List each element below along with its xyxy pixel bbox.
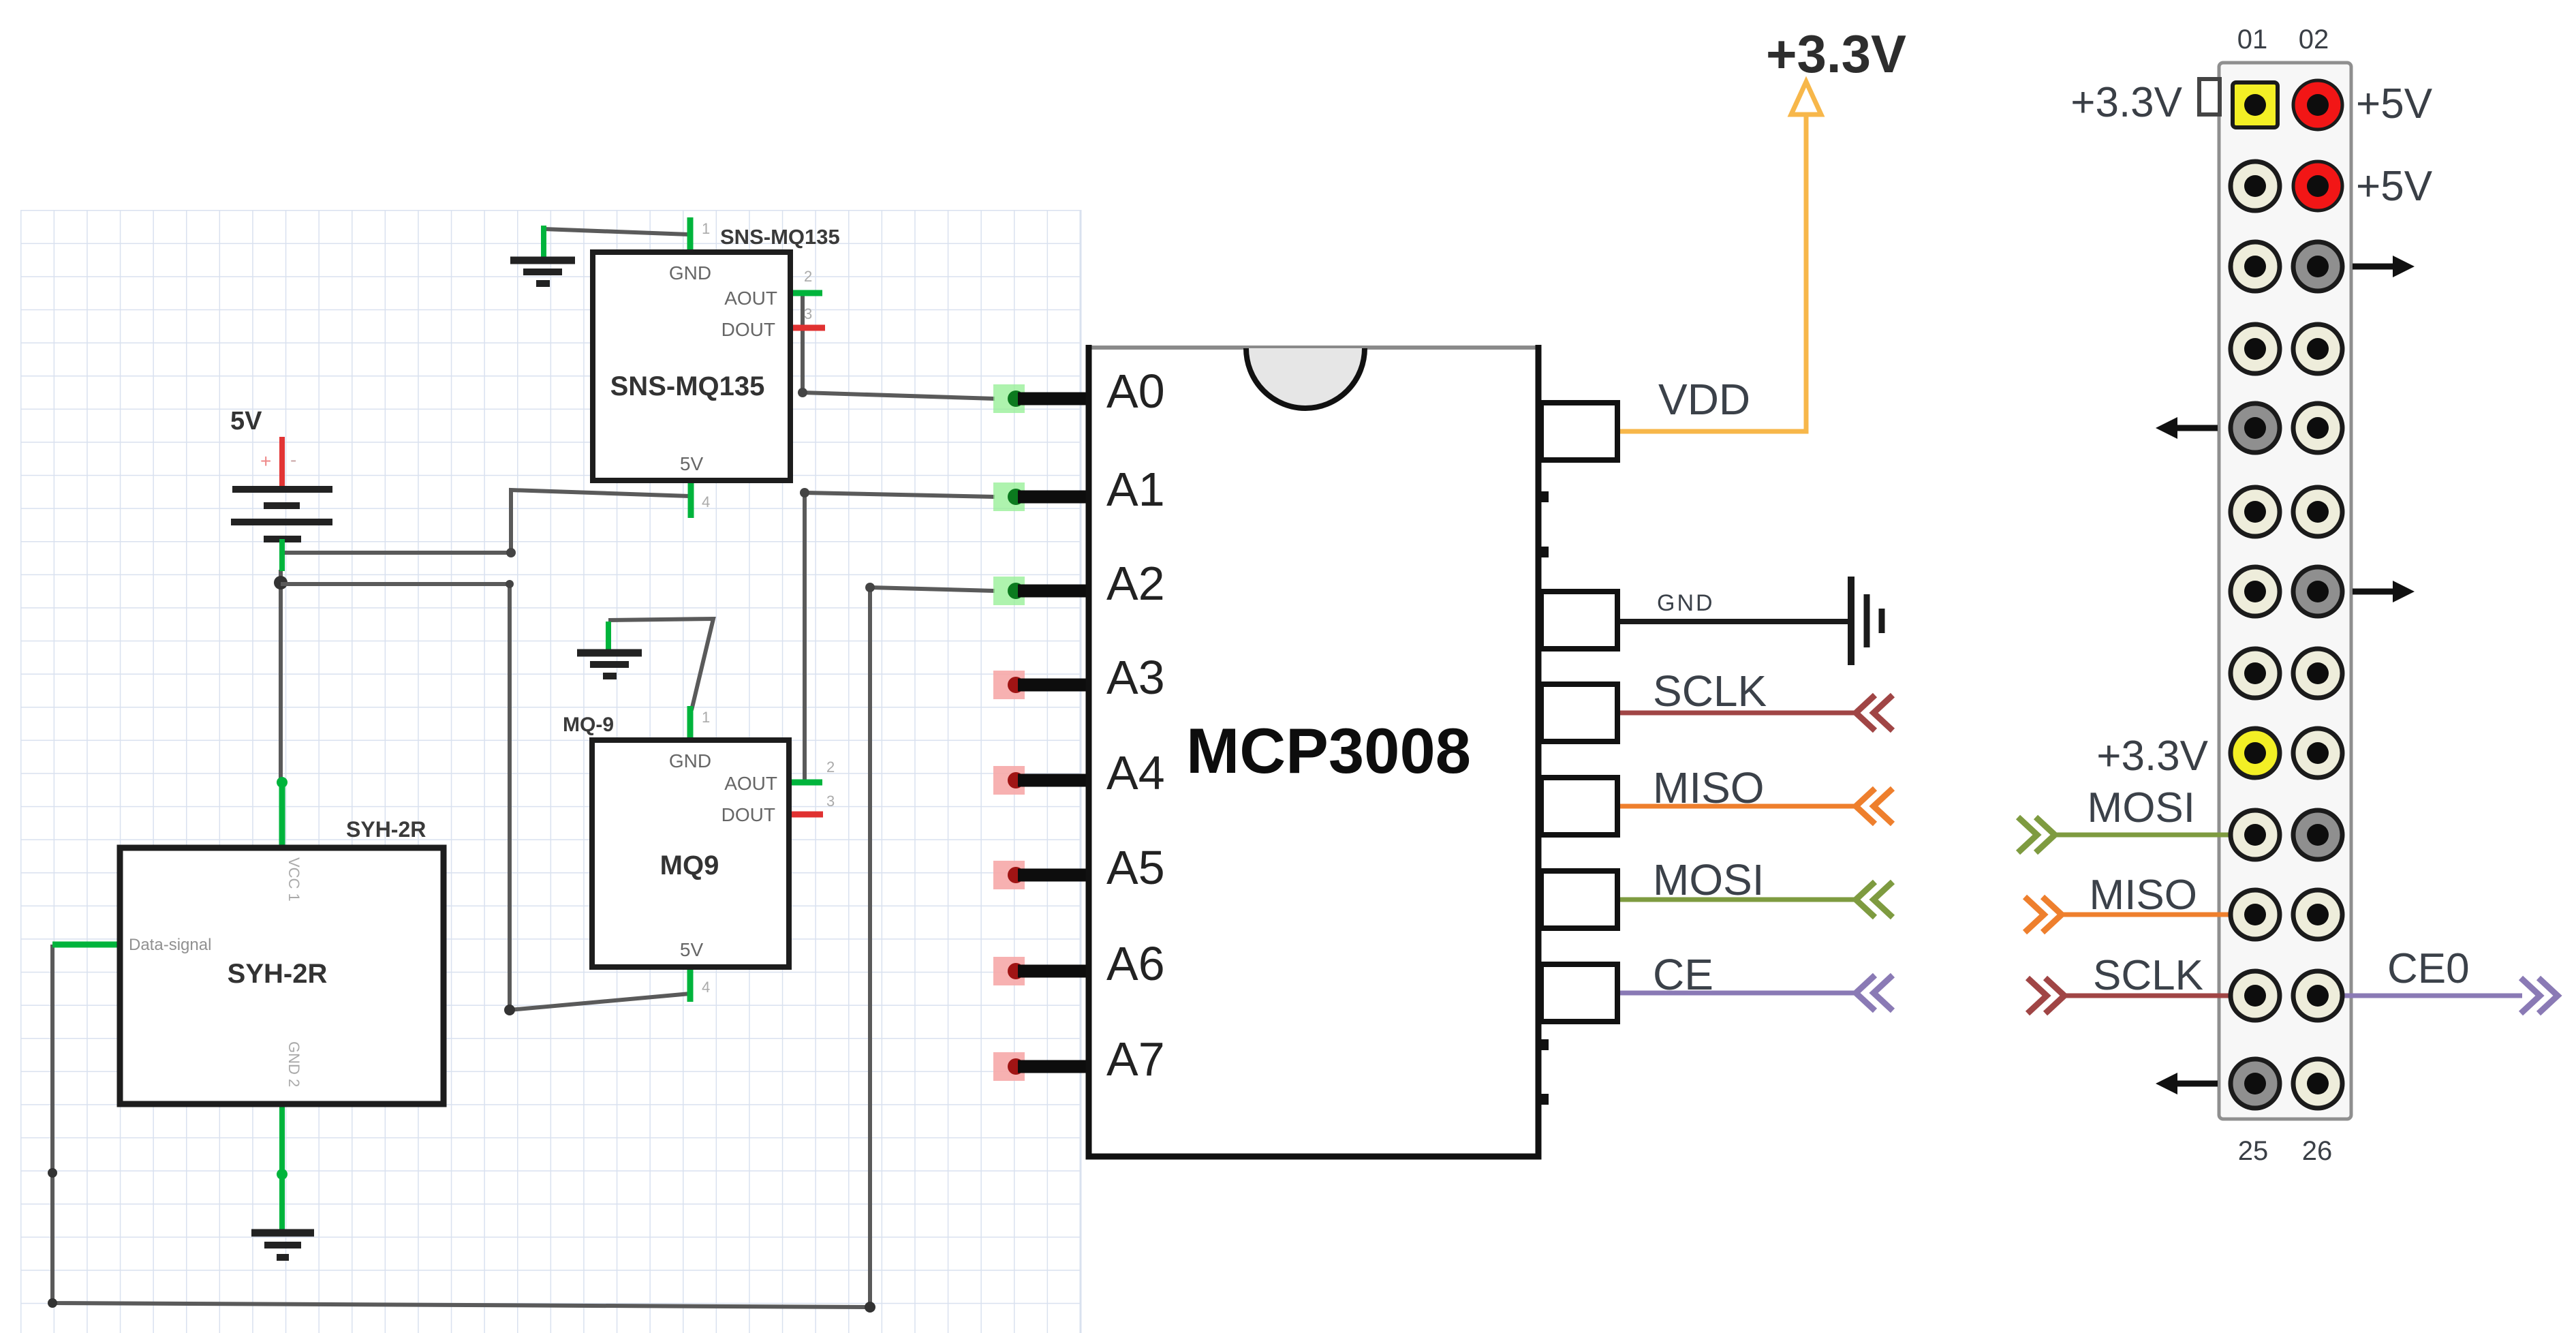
MCP3008 stub A3 [1018, 679, 1091, 692]
svg-text:+5V: +5V [2356, 80, 2433, 127]
pin 13 cream [2231, 567, 2280, 616]
svg-text:1: 1 [702, 709, 710, 726]
pin 16 cream [2293, 649, 2342, 698]
pin 17 yellow [2231, 729, 2280, 778]
ground G3 plate short [277, 1254, 289, 1261]
svg-text:MISO: MISO [2090, 872, 2197, 919]
svg-text:Data-signal: Data-signal [129, 936, 211, 954]
MCP3008 stub A0 [1018, 393, 1091, 405]
CE0 chevron out [2521, 978, 2558, 1013]
svg-text:A2: A2 [1106, 557, 1165, 610]
svg-text:MQ-9: MQ-9 [563, 714, 614, 736]
wire SCLK to header [2060, 994, 2255, 998]
MCP3008 top edge [1089, 346, 1538, 350]
pin 21 cream [2231, 890, 2280, 939]
MCP3008 notch arc [1246, 348, 1365, 408]
pin 04 red [2293, 162, 2342, 211]
pin 08 cream [2293, 324, 2342, 373]
ground G1 stem [541, 226, 546, 260]
pin 01 yellow square [2233, 82, 2278, 127]
ground G3 plate long [251, 1229, 314, 1237]
MQ9 pin1 GND stub [687, 706, 694, 743]
MCP3008 notch [1246, 348, 1365, 408]
MCP3008 body fill [1089, 348, 1538, 1156]
MCP3008 pad A1 [993, 482, 1025, 511]
wire CE net [1620, 991, 1858, 996]
svg-text:AOUT: AOUT [724, 773, 777, 794]
svg-text:2: 2 [826, 759, 835, 776]
node corner dot A2 bottom [865, 1302, 875, 1313]
wire MOSI net [1620, 898, 1858, 902]
node corner dot A2 top [865, 583, 875, 592]
svg-text:26: 26 [2302, 1136, 2333, 1166]
MQ9 pin2 AOUT stub [788, 780, 822, 786]
pin 15 cream [2231, 649, 2280, 698]
SNS-MQ135 body [593, 252, 790, 480]
wire MQ9 AOUT to A1 [805, 493, 995, 782]
MCP3008 stub A6 [1018, 965, 1091, 978]
pin 02 red [2293, 80, 2342, 129]
ground G4 bar mid [1864, 594, 1870, 647]
wire CE0 from header [2318, 994, 2522, 998]
MQ9 pin4 5V stub [687, 967, 694, 1002]
arrow left row13 [2156, 1073, 2218, 1094]
node corner dot A0 [798, 388, 807, 397]
SNS-MQ135 pin3 DOUT stub [788, 325, 825, 331]
ground G4 (rotated) bar tall [1848, 577, 1855, 665]
ground G2 plate short [603, 673, 617, 679]
MCP3008 stub A5 [1018, 869, 1091, 882]
svg-text:A7: A7 [1106, 1032, 1165, 1086]
SCLK chevron out [2028, 978, 2064, 1013]
svg-text:SCLK: SCLK [2093, 952, 2203, 999]
GRID-RIGHT-EDGE [1080, 210, 1082, 1333]
pin 10 cream [2293, 403, 2342, 453]
wire MOSI to header [2051, 833, 2255, 838]
svg-text:MOSI: MOSI [2088, 784, 2195, 831]
svg-text:CE: CE [1653, 950, 1713, 999]
svg-text:5V: 5V [230, 407, 262, 435]
SNS-MQ135 pin2 AOUT stub [788, 290, 822, 296]
wire battery+ to SNS-MQ135 5V (net 5V-A) [282, 490, 689, 553]
MCP3008 pad A6 [993, 957, 1025, 985]
svg-text:+: + [260, 450, 271, 472]
MCP3008 right small stub 1 [1538, 491, 1549, 502]
svg-text:A1: A1 [1106, 463, 1165, 516]
pin 05 cream [2231, 242, 2280, 291]
ground G3 stem node [277, 1169, 288, 1180]
node junction dot data wire [48, 1168, 57, 1178]
svg-text:25: 25 [2238, 1136, 2269, 1166]
ground G4 bar short [1879, 609, 1885, 633]
SYH-2R VCC node [277, 777, 288, 788]
wire ground G1 to SNS-MQ135 GND [544, 229, 689, 234]
svg-text:VCC 1: VCC 1 [285, 857, 302, 902]
SYH-2R VCC stub top [279, 780, 285, 851]
pin 03 cream [2231, 162, 2280, 211]
ground G3 plate mid [264, 1242, 301, 1248]
wire battery to MQ9 5V (net 5V-B) [281, 584, 690, 1010]
wire SNS-MQ135 AOUT to A0 [803, 294, 995, 399]
svg-text:5V: 5V [680, 939, 704, 960]
svg-text:1: 1 [702, 220, 710, 237]
MCP3008 pad A3 [993, 671, 1025, 699]
MCP3008 VDD pin box [1541, 403, 1617, 460]
svg-text:2: 2 [804, 268, 812, 285]
ground G2 plate long [577, 649, 642, 657]
svg-text:01: 01 [2237, 25, 2268, 55]
battery positive lead (red) [279, 437, 285, 490]
svg-text:MOSI: MOSI [1653, 855, 1765, 904]
wire battery down to SYH-2R VCC [279, 570, 283, 784]
svg-text:MISO: MISO [1653, 763, 1765, 812]
MCP3008 right small stub 4 [1538, 1094, 1549, 1105]
svg-text:AOUT: AOUT [724, 288, 777, 309]
svg-text:MCP3008: MCP3008 [1186, 715, 1471, 786]
battery plate 2 [264, 502, 300, 509]
svg-text:-: - [290, 449, 296, 470]
svg-text:SYH-2R: SYH-2R [228, 959, 328, 989]
wire SYH-2R Data-signal to A2 [52, 587, 995, 1307]
svg-text:SYH-2R: SYH-2R [346, 817, 426, 842]
SNS-MQ135 pin4 5V stub [688, 480, 694, 518]
schematic grid [20, 210, 1081, 1333]
arrow left row5 [2156, 417, 2218, 439]
MQ9 pin3 DOUT stub [788, 812, 823, 818]
ground G2 plate mid [590, 661, 629, 668]
SNS-MQ135 pin1 GND stub [687, 217, 694, 255]
svg-text:MQ9: MQ9 [660, 851, 719, 880]
svg-text:+3.3V: +3.3V [1766, 24, 1906, 84]
svg-text:+5V: +5V [2356, 163, 2433, 210]
arrow right row7 [2353, 581, 2415, 602]
svg-text:3: 3 [804, 305, 812, 322]
wire SCLK net [1620, 711, 1858, 716]
node junction dot 5V-B bottom [504, 1005, 515, 1015]
svg-text:02: 02 [2299, 25, 2329, 55]
svg-text:5V: 5V [680, 453, 704, 474]
ground G3 stem [279, 1104, 285, 1233]
pin 20 gray [2293, 810, 2342, 859]
pin 19 cream [2231, 810, 2280, 859]
MCP3008 SCLK pin box [1541, 684, 1617, 741]
MCP3008 stub A4 [1018, 774, 1091, 787]
svg-text:3: 3 [826, 793, 835, 810]
svg-text:GND: GND [669, 750, 711, 771]
+3.3V clip mark [2199, 79, 2220, 114]
+3.3V arrowhead [1791, 82, 1821, 114]
battery plate 3 [231, 519, 332, 525]
svg-text:A4: A4 [1106, 746, 1165, 799]
ground G1 plate long [510, 257, 575, 264]
ground G1 plate mid [523, 269, 562, 275]
svg-text:DOUT: DOUT [721, 804, 775, 825]
svg-text:SNS-MQ135: SNS-MQ135 [720, 225, 840, 249]
pin 06 gray [2293, 242, 2342, 291]
MCP3008 stub A7 [1018, 1060, 1091, 1073]
node corner dot battery net [506, 548, 516, 557]
node corner dot A1 [800, 488, 809, 497]
MCP3008 stub A1 [1018, 491, 1091, 504]
svg-text:A0: A0 [1106, 365, 1165, 418]
wire MISO to header [2058, 913, 2255, 917]
node corner dot data wire bottom-left [48, 1298, 57, 1308]
SCLK chevron in [1856, 695, 1893, 731]
MCP3008 pad A7 [993, 1052, 1025, 1081]
MQ9 body [592, 740, 789, 967]
svg-text:+3.3V: +3.3V [2096, 733, 2208, 780]
pin 07 cream [2231, 324, 2280, 373]
MOSI chevron out [2018, 817, 2055, 853]
SYH-2R Data-signal stub [52, 942, 123, 948]
MISO chevron out [2025, 897, 2062, 932]
SYH-2R body [120, 848, 444, 1104]
MCP3008 pad A0 [993, 384, 1025, 413]
header body [2219, 63, 2351, 1119]
pin 22 cream [2293, 890, 2342, 939]
MCP3008 CE pin box [1541, 964, 1617, 1022]
svg-text:GND: GND [669, 262, 711, 284]
pin 24 cream [2293, 971, 2342, 1020]
MISO chevron in [1856, 788, 1893, 824]
svg-text:+3.3V: +3.3V [2070, 79, 2182, 126]
svg-text:SCLK: SCLK [1653, 666, 1767, 716]
pin 18 cream [2293, 729, 2342, 778]
svg-text:CE0: CE0 [2387, 945, 2470, 992]
MCP3008 MISO pin box [1541, 778, 1617, 835]
MOSI chevron in [1856, 882, 1893, 917]
svg-text:VDD: VDD [1658, 375, 1750, 424]
pin 12 cream [2293, 487, 2342, 536]
wire MISO net [1620, 804, 1858, 809]
pin 23 cream [2231, 971, 2280, 1020]
svg-text:4: 4 [702, 979, 710, 996]
pin 25 gray [2231, 1059, 2280, 1108]
MCP3008 stub A2 [1018, 585, 1091, 598]
pin 14 gray [2293, 567, 2342, 616]
svg-text:GND: GND [1657, 590, 1715, 616]
svg-text:A5: A5 [1106, 841, 1165, 894]
arrow right row3 [2353, 256, 2415, 277]
MCP3008 right small stub 2 [1538, 547, 1549, 557]
svg-text:DOUT: DOUT [721, 319, 775, 340]
svg-text:A3: A3 [1106, 651, 1165, 704]
pin 26 cream [2293, 1059, 2342, 1108]
battery plate 1 [232, 486, 332, 493]
svg-text:GND 2: GND 2 [285, 1041, 302, 1087]
wire ground G2 to MQ9 GND [608, 619, 713, 710]
MCP3008 pad A5 [993, 861, 1025, 889]
MCP3008 GND pin box [1541, 592, 1617, 649]
MCP3008 MOSI pin box [1541, 871, 1617, 928]
ground G1 plate short [536, 280, 550, 287]
MCP3008 right small stub 3 [1538, 1039, 1549, 1050]
battery negative lead (green) [279, 539, 285, 571]
node junction battery net [274, 576, 288, 589]
pin 09 gray [2231, 403, 2280, 453]
wire GND net [1620, 619, 1851, 624]
svg-text:A6: A6 [1106, 937, 1165, 990]
battery plate 4 [264, 536, 301, 542]
pin 11 cream [2231, 487, 2280, 536]
node corner dot 5V-B [506, 580, 514, 588]
svg-text:4: 4 [702, 493, 710, 510]
CE chevron in [1856, 975, 1893, 1011]
wire VDD to +3.3V [1620, 112, 1806, 431]
MCP3008 left-bottom-right border [1089, 345, 1538, 1156]
MCP3008 pad A4 [993, 766, 1025, 795]
MCP3008 pad A2 [993, 577, 1025, 605]
ground G2 stem [606, 622, 611, 653]
svg-text:SNS-MQ135: SNS-MQ135 [610, 371, 765, 401]
